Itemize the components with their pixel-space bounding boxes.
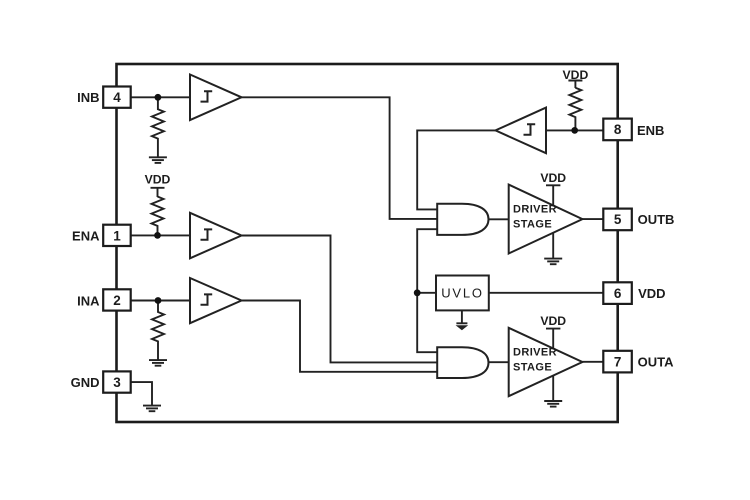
resistor R3 INA pulldown — [152, 301, 164, 361]
schmitt buffer U3 INA — [190, 278, 242, 323]
wire UVLO input spur — [417, 292, 436, 294]
wire pin8 to ENB buffer input — [546, 129, 603, 131]
pin 5 box — [603, 209, 632, 231]
pin 6 box — [603, 282, 632, 304]
svg-text:STAGE: STAGE — [513, 362, 552, 374]
wire pin4 to buffer U1 input — [131, 96, 190, 98]
svg-text:ENA: ENA — [72, 228, 100, 243]
junction node INB — [155, 94, 162, 101]
svg-text:VDD: VDD — [540, 314, 566, 328]
wire INB buffer output routing to AND gate B middle input — [242, 97, 438, 219]
wire driver stage A output to pin7 — [582, 361, 603, 363]
svg-text:ENB: ENB — [637, 123, 664, 138]
svg-text:4: 4 — [113, 90, 121, 105]
resistor R2 ENA pullup — [152, 197, 164, 236]
AND gate A — [437, 347, 488, 378]
wire UVLO output to pin6 VDD — [489, 292, 604, 294]
wire UVLO node to both AND gates — [417, 229, 437, 352]
pin 1 box — [103, 225, 131, 246]
svg-text:2: 2 — [113, 293, 121, 308]
pin 2 box — [103, 289, 131, 310]
wire AND gate B output to driver stage B — [489, 218, 509, 220]
svg-text:GND: GND — [71, 375, 100, 390]
UVLO block — [436, 276, 489, 311]
AND gate B — [437, 204, 488, 235]
pin 8 box — [603, 119, 632, 141]
pin 4 box — [103, 87, 131, 108]
svg-text:3: 3 — [113, 375, 121, 390]
VDD supply for driver stage A — [540, 314, 566, 349]
svg-text:1: 1 — [113, 228, 121, 243]
wire pin1 to buffer U2 input — [131, 234, 190, 236]
wire INA buffer output routing to AND gate A bottom input — [241, 301, 437, 372]
pin 7 box — [603, 351, 632, 373]
svg-text:INB: INB — [77, 90, 99, 105]
ground under UVLO (arrow style) — [456, 310, 469, 330]
schmitt buffer U4 ENB (points left) — [496, 108, 547, 154]
svg-text:VDD: VDD — [638, 286, 665, 301]
junction node UVLO — [414, 289, 421, 296]
driver stage B — [509, 185, 583, 254]
svg-text:5: 5 — [614, 212, 622, 227]
resistor R1 INB pulldown — [152, 97, 164, 157]
svg-text:UVLO: UVLO — [441, 285, 484, 300]
ground under R3 — [149, 360, 167, 366]
wire ENB buffer output routing to AND gate B top input — [417, 130, 495, 209]
svg-text:OUTA: OUTA — [638, 355, 674, 370]
ground lead under driver stage B — [552, 233, 554, 259]
svg-text:INA: INA — [77, 294, 100, 309]
ground at pin3 GND — [143, 406, 161, 412]
wire driver stage B output to pin5 — [582, 218, 603, 220]
VDD supply for driver stage B — [540, 171, 566, 206]
wire pin2 to buffer U3 input — [131, 300, 190, 302]
svg-text:6: 6 — [614, 286, 622, 301]
svg-text:DRIVER: DRIVER — [513, 204, 557, 216]
svg-text:OUTB: OUTB — [638, 212, 675, 227]
schmitt buffer U2 ENA — [190, 213, 242, 258]
pin 3 box — [103, 371, 131, 392]
junction node INA — [155, 297, 162, 304]
schmitt buffer U1 INB — [190, 75, 242, 121]
driver stage A — [509, 328, 583, 396]
ground lead under driver stage A — [552, 376, 554, 401]
wire ENA buffer output routing to AND gate A middle input — [242, 236, 437, 363]
svg-text:7: 7 — [614, 354, 622, 369]
svg-text:VDD: VDD — [145, 172, 171, 186]
VDD T-bar for R2 — [151, 188, 165, 197]
junction node ENA — [154, 232, 161, 239]
ground under driver stage B — [544, 259, 562, 265]
wire AND gate A output to driver stage A — [489, 361, 509, 363]
IC boundary — [117, 64, 618, 422]
svg-text:STAGE: STAGE — [513, 219, 552, 231]
resistor R4 ENB pullup — [569, 88, 581, 131]
svg-text:8: 8 — [614, 122, 622, 137]
wire pin3 GND to ground symbol — [131, 382, 152, 405]
svg-text:VDD: VDD — [540, 171, 566, 185]
junction node ENB — [571, 127, 578, 134]
svg-text:DRIVER: DRIVER — [513, 347, 557, 359]
ground under R1 — [149, 157, 167, 163]
ground under driver stage A — [544, 401, 562, 407]
VDD T-bar for R4 — [568, 81, 582, 89]
